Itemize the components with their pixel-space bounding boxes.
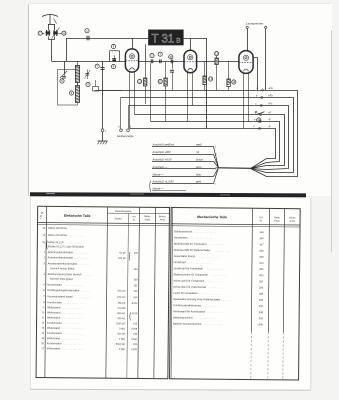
coil L2 (bandfilter)	[110, 50, 120, 61]
svg-text:. . . . . . . . . . . . . . .: . . . . . . . . . . . . . . . . .	[61, 348, 82, 350]
svg-text:Netzschalter: Netzschalter	[47, 283, 62, 287]
brace rows 5-6	[128, 252, 131, 261]
wire lead blau fan	[214, 168, 219, 177]
svg-text:Widerstand: Widerstand	[47, 336, 61, 340]
wire run-c left drop	[128, 106, 130, 129]
wire C1 stub	[42, 33, 44, 35]
svg-text:+Fb: +Fb	[268, 94, 273, 98]
terminal e	[259, 120, 261, 122]
label circle 2	[150, 54, 154, 58]
svg-text:Kondensatorabdeckung: Kondensatorabdeckung	[173, 303, 201, 307]
svg-text:. . . . . . . . . . . . . . .: . . . . . . . . . . . . . . .	[66, 235, 85, 237]
wire trimmer stub	[64, 73, 66, 77]
svg-text:Heizwiderstand kompl.: Heizwiderstand kompl.	[47, 294, 73, 298]
svg-text:Röhre RV12P2a: Röhre RV12P2a	[48, 233, 67, 237]
svg-text:. . . . . . . . . . . . . . .: . . . . . . . . . . . . . . . . .	[62, 313, 83, 315]
wire V2 top	[190, 38, 192, 50]
svg-text:6159: 6159	[131, 348, 137, 351]
resistor R3	[215, 58, 218, 65]
svg-text:Widerstand: Widerstand	[47, 346, 61, 350]
svg-text:250 pF: 250 pF	[118, 302, 126, 305]
svg-text:grün: grün	[196, 165, 202, 169]
svg-text:Antennenkondensator: Antennenkondensator	[48, 255, 74, 259]
resistor R4	[203, 76, 206, 85]
wire C11 down	[172, 72, 174, 90]
svg-text:T 31: T 31	[152, 33, 175, 45]
trimmer cap C5	[62, 77, 66, 79]
wire R5 down	[228, 87, 230, 91]
capacitor C8	[151, 59, 153, 63]
svg-text:gelb: gelb	[196, 180, 202, 184]
switch S1	[255, 111, 264, 114]
svg-text:Batterie-Anschlußschnur: Batterie-Anschlußschnur	[173, 322, 202, 326]
type label plate "T 31 B"	[148, 30, 183, 46]
svg-text:+Fa: +Fa	[268, 86, 273, 90]
shield box (tuning coil)	[58, 70, 78, 106]
svg-text:Preis: Preis	[160, 219, 166, 222]
svg-text:50 pF: 50 pF	[119, 252, 126, 255]
antenna	[42, 15, 58, 25]
label circle 7	[95, 64, 99, 68]
wire box drop	[145, 44, 147, 61]
svg-text:200 pF: 200 pF	[117, 333, 125, 336]
svg-text:Antennenkondensator: Antennenkondensator	[48, 250, 74, 254]
svg-text:Bestellangaben: Bestellangaben	[115, 210, 132, 213]
ground symbol	[98, 141, 108, 144]
resistor R2	[164, 78, 167, 86]
svg-text:190: 190	[133, 290, 138, 293]
svg-text:Spulenabschirmung ohne Wellens: Spulenabschirmung ohne Wellenschalter	[173, 297, 220, 301]
capacitor C11	[170, 70, 174, 72]
svg-text:weiß: weiß	[196, 143, 202, 147]
wire V3 cathode down	[243, 73, 245, 129]
capacitor C9	[160, 59, 162, 63]
wire connection lead rot	[152, 154, 214, 156]
svg-text:B: B	[176, 38, 180, 45]
capacitor C7	[100, 68, 104, 70]
svg-text:337: 337	[259, 305, 264, 308]
right table: column lines (solid in header, dashed below)	[251, 208, 252, 332]
svg-text:. . . . . . . . . . . . . .: . . . . . . . . . . . . . .	[208, 281, 226, 283]
svg-text:. . . . . . . . . . . . .: . . . . . . . . . . . . .	[212, 275, 228, 277]
wire bus to R1	[145, 61, 147, 78]
svg-text:160: 160	[133, 278, 138, 281]
wire main bus	[52, 61, 240, 63]
wire V1 cathode down	[129, 72, 131, 129]
wire C2 stub	[59, 33, 62, 35]
svg-text:Preis: Preis	[145, 218, 151, 221]
svg-text:145: 145	[133, 323, 138, 326]
svg-text:Preis: Preis	[290, 220, 296, 223]
svg-text:6159: 6159	[132, 312, 138, 315]
svg-text:145: 145	[134, 252, 139, 255]
svg-text:670 cm: 670 cm	[117, 296, 125, 299]
label circle 15	[232, 80, 236, 84]
svg-text:336: 336	[259, 299, 264, 302]
wire lead rot fan	[214, 155, 219, 168]
wire connection lead weiß	[152, 146, 214, 148]
svg-text:. . . . . . . . . . . . . . .: . . . . . . . . . . . . . . . . . . .	[192, 231, 216, 233]
label Masse	[152, 190, 186, 192]
svg-text:. . . . . . . . . . . . . . .: . . . . . . . . . . . . . . . .	[200, 305, 220, 307]
svg-text:Größe: Größe	[115, 218, 123, 221]
wire top coupling run	[66, 38, 207, 40]
tube V3 (RL12P)	[239, 51, 253, 74]
svg-text:Abstimmspule großer Bereich: Abstimmspule großer Bereich	[48, 272, 83, 276]
wire V2 filament down	[192, 72, 194, 105]
svg-text:. . . . . . . . . . . .: . . . . . . . . . . . .	[73, 258, 88, 260]
svg-text:-F: -F	[268, 125, 271, 129]
svg-text:Abstimmdrehkondensator: Abstimmdrehkondensator	[48, 261, 78, 265]
svg-text:1340: 1340	[257, 323, 263, 326]
svg-text:. . . . . . . . . . . . . . .: . . . . . . . . . . . . . . . . . .	[195, 318, 218, 320]
label circle 3	[158, 52, 162, 56]
capacitor C1 (antenna left)	[46, 30, 51, 36]
terminal b (test point)	[120, 129, 123, 132]
svg-text:Teil-: Teil-	[132, 217, 136, 219]
label circle 5	[60, 79, 64, 83]
terminal b	[261, 96, 263, 98]
svg-text:+Fc: +Fc	[268, 102, 273, 106]
terminal d	[260, 113, 262, 115]
svg-text:2 MΩ: 2 MΩ	[119, 348, 125, 351]
small box component	[93, 87, 99, 92]
svg-text:Bereich rechts (blau): Bereich rechts (blau)	[50, 266, 74, 270]
svg-text:351: 351	[259, 280, 264, 283]
svg-text:Widerstand: Widerstand	[47, 310, 61, 314]
wire connection lead gelb	[152, 183, 214, 185]
wire speaker lead down	[265, 29, 267, 91]
brace roehre rows	[46, 241, 49, 250]
svg-text:Drehknopf für Feinantrieb: Drehknopf für Feinantrieb	[174, 266, 204, 270]
wire lead gelb fan	[214, 168, 219, 184]
svg-text:blau: blau	[196, 172, 202, 176]
trimmer cap C6	[84, 70, 90, 80]
svg-text:Kondensator: Kondensator	[47, 331, 62, 335]
svg-text:Elektrische Teile: Elektrische Teile	[64, 214, 91, 218]
svg-text:335: 335	[259, 293, 264, 296]
label circle 18	[62, 31, 66, 35]
label circle 8	[111, 65, 115, 69]
speaker terminal 1	[246, 26, 248, 28]
svg-text:. . . . . . . . . . . . . . .: . . . . . . . . . . . . . . . .	[64, 285, 84, 287]
capacitor C2 (antenna right, trimmer)	[52, 28, 60, 39]
svg-text:. . . . . . . . . . . . . . .: . . . . . . . . . . . . . . . .	[63, 323, 83, 325]
wire bus to C11	[172, 61, 174, 69]
wire cap merge loop	[49, 37, 55, 40]
svg-text:. . . . . . . . .: . . . . . . . . .	[222, 299, 233, 301]
tube V1 (RV12P2000)	[125, 49, 138, 72]
left table: column lines	[45, 206, 47, 377]
svg-text:6160: 6160	[131, 338, 137, 341]
wire bus to L1a	[77, 61, 79, 65]
wire to V1 grid cap	[132, 38, 134, 49]
svg-text:Heizrahmen: Heizrahmen	[174, 235, 189, 239]
wire C8 bottom drop	[150, 63, 152, 121]
svg-text:1 MΩ: 1 MΩ	[119, 338, 125, 341]
wire antenna split	[48, 24, 55, 26]
wire branch to ground	[102, 61, 104, 129]
wire run f to harness	[130, 129, 276, 169]
left table: header rules	[38, 223, 170, 224]
right table: header rules	[171, 224, 300, 225]
svg-text:Lautsprecher: Lautsprecher	[246, 21, 265, 25]
svg-text:. . . . . . . . . . . . . . .: . . . . . . . . . . . . . . . . . . . .	[188, 238, 213, 240]
svg-text:2,5 MΩ: 2,5 MΩ	[117, 307, 125, 310]
svg-text:. . . . . . . . . . . . . .: . . . . . . . . . . . . . .	[208, 244, 226, 246]
svg-text:Anschluß +90V: Anschluß +90V	[152, 150, 172, 154]
svg-text:Anschluß weiß/rot: Anschluß weiß/rot	[152, 143, 175, 147]
capacitor C10	[171, 59, 173, 63]
svg-text:500 kΩ: 500 kΩ	[117, 312, 125, 315]
wire drop x66	[66, 38, 68, 61]
resistor R5	[227, 79, 230, 87]
label circle 6	[69, 91, 73, 95]
tube V2 (RV12P2000)	[184, 50, 197, 72]
svg-text:Nr.: Nr.	[260, 220, 263, 223]
svg-text:Lfd.: Lfd.	[259, 217, 263, 219]
svg-text:160: 160	[134, 268, 139, 271]
svg-text:Preis: Preis	[274, 220, 280, 223]
svg-text:. . . . . . . . . . . . . . .: . . . . . . . . . . . . . . . . .	[62, 318, 83, 320]
svg-text:Hinterwand für Kombination: Hinterwand für Kombination	[173, 309, 206, 313]
coil L1a (upper winding)	[75, 66, 79, 83]
svg-text:Gehäusedeckel: Gehäusedeckel	[174, 229, 192, 233]
svg-text:Anschluß +4,5V: Anschluß +4,5V	[152, 158, 172, 162]
svg-text:6208: 6208	[132, 328, 138, 331]
svg-text:Mechanische Teile: Mechanische Teile	[197, 215, 227, 219]
wire V1 filament down	[134, 72, 136, 115]
svg-text:345: 345	[259, 268, 264, 271]
svg-text:Rückkopplungskondensator: Rückkopplungskondensator	[47, 288, 79, 292]
svg-text:. . . . . . . . . . .: . . . . . . . . . . .	[77, 297, 91, 299]
variable core arrow	[60, 71, 67, 78]
label circle 13	[215, 52, 219, 56]
wire run e to harness	[151, 122, 280, 169]
speaker terminal 2	[265, 26, 267, 28]
capacitor C4 (under L2)	[112, 55, 116, 61]
capacitor C3 (coupling)	[87, 36, 89, 41]
svg-text:Röhre RV12P2a: Röhre RV12P2a	[48, 226, 67, 230]
wire R3 down	[216, 65, 218, 91]
wire connection lead blau	[152, 176, 214, 178]
svg-text:. . . . . . . . . . . .: . . . . . . . . . . . .	[215, 250, 230, 252]
svg-text:2000 pF: 2000 pF	[116, 322, 126, 325]
svg-text:. . . . . . . . . . . . . . .: . . . . . . . . . . . . . . .	[204, 324, 223, 326]
svg-text:346: 346	[260, 231, 265, 234]
svg-text:344: 344	[259, 262, 264, 265]
wire box up	[95, 80, 97, 87]
svg-text:(Röhre RL12T1 oder RES/164): (Röhre RL12T1 oder RES/164)	[48, 244, 84, 248]
svg-text:349: 349	[259, 256, 264, 259]
svg-text:Skalenscheibe für Feinantrieb: Skalenscheibe für Feinantrieb	[174, 272, 209, 276]
svg-text:. . . . . . . .: . . . . . . . .	[83, 274, 93, 276]
wire terminal to ground	[102, 132, 104, 141]
svg-text:. . . . . . . . . . . . . .: . . . . . . . . . . . . . .	[207, 269, 225, 271]
wire connection lead grün	[152, 168, 214, 170]
wire lead weiß fan	[214, 147, 219, 168]
left table: outer frame	[36, 206, 169, 379]
terminal f	[258, 127, 260, 129]
wire bus to R5	[228, 61, 230, 79]
right table: outer frame	[170, 207, 301, 380]
svg-text:Batterieanschluß: Batterieanschluß	[173, 315, 193, 319]
svg-text:Widerstand: Widerstand	[47, 305, 61, 309]
label circle 10	[169, 55, 173, 59]
svg-text:Ausschalter kompl.: Ausschalter kompl.	[174, 254, 196, 258]
svg-text:200 pF: 200 pF	[118, 257, 126, 260]
svg-text:. . . . . . . . . . . . . . .: . . . . . . . . . . . . . . .	[66, 228, 85, 230]
svg-text:2 MΩ: 2 MΩ	[119, 327, 125, 330]
wire antenna to C2	[54, 24, 56, 30]
svg-text:Bereich links (grau): Bereich links (grau)	[50, 277, 73, 281]
wire run b to harness	[121, 98, 294, 173]
svg-text:+F: +F	[268, 111, 272, 115]
terminal f (test point)	[101, 129, 104, 132]
svg-text:Drehknopf: Drehknopf	[174, 260, 186, 264]
svg-text:338: 338	[259, 311, 264, 314]
svg-text:Heizanzeige: Heizanzeige	[117, 134, 134, 138]
wire antenna to C1	[48, 24, 50, 30]
terminal d (test point)	[127, 129, 130, 132]
svg-text:Abdeckschild für Trennwand: Abdeckschild für Trennwand	[174, 242, 207, 246]
svg-text:. . . . . . . . . . . . .: . . . . . . . . . . . . .	[209, 287, 225, 289]
wire speaker to V3 anode	[247, 29, 249, 51]
svg-text:. . . . . . . . . . . . . . .: . . . . . . . . . . . . . . . . .	[62, 328, 83, 330]
svg-text:-F: -F	[268, 118, 271, 122]
wire run a to harness	[95, 91, 298, 177]
heavy black separator bar (scan artifact)	[30, 192, 306, 197]
svg-text:Masse —: Masse —	[153, 187, 165, 191]
svg-text:348: 348	[259, 250, 264, 253]
coil L1b (lower winding)	[75, 86, 79, 103]
svg-text:145: 145	[133, 343, 138, 346]
svg-text:470 cm: 470 cm	[117, 290, 125, 293]
wire bus into coil box	[64, 61, 66, 73]
wire R3 top stub	[216, 56, 218, 58]
svg-text:. . . . . . . . . . . . . . .: . . . . . . . . . . . . . . . .	[63, 333, 83, 335]
parts table (rotated slightly like the scan)	[36, 206, 300, 380]
terminal c	[260, 104, 262, 106]
svg-text:braun: braun	[196, 158, 203, 162]
svg-text:334: 334	[259, 286, 264, 289]
wire lead grün fan	[214, 168, 219, 169]
wire antenna down to bus	[51, 39, 53, 61]
svg-text:347: 347	[259, 243, 264, 246]
svg-text:. . . . . . . . . . . . . . .: . . . . . . . . . . . . . . . .	[63, 343, 83, 345]
svg-text:. . . . . . . . . . .: . . . . . . . . . . .	[77, 264, 91, 266]
parts-list sheet background	[30, 197, 311, 389]
wire V3 screen to run a	[254, 58, 258, 91]
wire R1 down	[145, 86, 147, 104]
svg-text:. . . . . . . . . . . . . . .: . . . . . . . . . . . . . . . .	[63, 302, 83, 304]
svg-text:. . . . . . . . . . . . . . .: . . . . . . . . . . . . . . . . .	[61, 338, 82, 340]
wire cluster to run f	[99, 90, 123, 92]
svg-text:Anschluß —: Anschluß —	[152, 165, 168, 169]
brace rows 16-17	[129, 312, 132, 320]
svg-text:250 kΩ: 250 kΩ	[117, 317, 125, 320]
svg-text:Feder für Feinantrieb: Feder für Feinantrieb	[173, 291, 198, 295]
wire run c to harness	[129, 106, 289, 170]
svg-text:. . . . . . . . .: . . . . . . . . .	[79, 290, 90, 292]
svg-text:. . . . . . . . . . . . . . .: . . . . . . . . . . . . . . . . .	[62, 307, 83, 309]
wire run d to harness	[135, 115, 285, 169]
wire long drop x206.5	[206, 38, 208, 129]
label circle 12	[158, 79, 162, 83]
wire V3 filament down	[248, 73, 250, 122]
svg-text:rot: rot	[196, 150, 199, 154]
wire run-b left drop	[120, 98, 122, 129]
svg-text:Abdeckschild für Wellenschalte: Abdeckschild für Wellenschalter	[174, 248, 211, 252]
svg-text:Röhre RL12P: Röhre RL12P	[48, 240, 64, 244]
wire lead braun fan	[214, 162, 219, 168]
svg-text:. . . . . . . . . . . . . . .: . . . . . . . . . . . . . . . .	[64, 242, 84, 244]
svg-text:. . . . . . . . . . . . . . .: . . . . . . . . . . . . . . . .	[202, 293, 222, 295]
label circle 17	[38, 31, 42, 35]
svg-text:6414: 6414	[132, 302, 138, 305]
terminal a	[261, 89, 263, 91]
svg-text:. . . . . . . . . . . . . . .: . . . . . . . . . . . . . . . .	[199, 256, 219, 258]
svg-text:. . . . . . . . . . . . . .: . . . . . . . . . . . . . .	[208, 312, 226, 314]
svg-text:164: 164	[133, 296, 138, 299]
svg-text:Achse groß für Feinantrieb: Achse groß für Feinantrieb	[173, 279, 204, 283]
svg-text:161: 161	[133, 284, 138, 287]
label circle 11	[138, 79, 142, 83]
wire R2 down	[165, 86, 167, 122]
svg-text:Nr.: Nr.	[133, 219, 136, 222]
svg-text:Kondensator: Kondensator	[47, 341, 62, 345]
wire L1a-L1b	[77, 83, 79, 86]
svg-text:Achse klein für Zwischenrad: Achse klein für Zwischenrad	[173, 285, 206, 289]
svg-text:Kondensator: Kondensator	[47, 321, 62, 325]
label circle 1	[85, 29, 89, 33]
svg-text:350: 350	[259, 274, 264, 277]
wire connection lead braun	[152, 161, 214, 163]
harness cable	[219, 167, 251, 170]
wire branch x204.6	[204, 61, 206, 76]
svg-text:Widerstand: Widerstand	[47, 316, 61, 320]
svg-text:. . . . . . . . . . . .: . . . . . . . . . . . .	[73, 252, 88, 254]
label circle 9	[111, 44, 115, 48]
wire bus to R2	[165, 61, 167, 78]
wire R4 down	[204, 85, 206, 91]
label circle 14	[209, 77, 213, 81]
svg-text:339: 339	[259, 317, 264, 320]
svg-text:Anschluß +1,5/3V: Anschluß +1,5/3V	[152, 180, 174, 184]
resistor R1	[144, 78, 147, 86]
label circle 4	[86, 82, 90, 86]
svg-text:Widerstand: Widerstand	[47, 326, 61, 330]
svg-text:5000 pF: 5000 pF	[116, 343, 126, 346]
svg-text:Kondensator: Kondensator	[47, 300, 62, 304]
svg-text:Masse —: Masse —	[153, 172, 165, 176]
schematic sheet background	[28, 3, 332, 196]
svg-text:145: 145	[133, 333, 138, 336]
svg-text:346: 346	[260, 237, 265, 240]
label circle 16	[257, 118, 261, 122]
svg-text:. . . . . . . . . . . . . . .: . . . . . . . . . . . . . . . . . . . .	[187, 262, 212, 264]
wire V2 cathode down	[187, 72, 189, 121]
